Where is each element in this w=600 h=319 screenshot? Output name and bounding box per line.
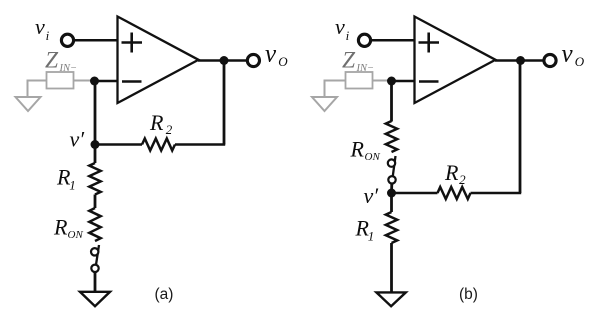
svg-text:2: 2	[459, 172, 466, 187]
node v' (a)	[91, 140, 100, 149]
wire output node down to R2 (a)	[223, 61, 226, 145]
switch blade (b)	[393, 156, 396, 176]
terminal vo (a)	[247, 54, 259, 66]
svg-text:v′: v′	[364, 183, 380, 208]
svg-text:R: R	[350, 137, 365, 162]
svg-text:IN−: IN−	[59, 63, 78, 74]
wire gray Zin left segment (b)	[325, 81, 346, 98]
gray ground (a)	[16, 97, 41, 111]
svg-text:R: R	[444, 160, 459, 185]
op-amp U1 (a)	[118, 17, 199, 104]
svg-text:v: v	[35, 14, 45, 39]
svg-text:Z: Z	[342, 47, 356, 73]
svg-text:v′: v′	[70, 126, 86, 151]
svg-text:ON: ON	[68, 229, 84, 241]
wire gray Zin to inverting node (b)	[373, 80, 391, 82]
svg-text:v: v	[335, 14, 345, 39]
wire R2 to output branch (b)	[471, 192, 522, 195]
wire inverting input (b)	[392, 80, 416, 83]
svg-text:v: v	[265, 41, 277, 68]
wire gray Zin left segment (a)	[28, 81, 47, 98]
terminal vo (b)	[544, 54, 556, 66]
svg-text:Z: Z	[45, 47, 59, 73]
svg-text:O: O	[278, 54, 288, 69]
resistor R1 (b)	[386, 212, 397, 243]
wire op-amp output to terminal (b)	[495, 59, 545, 62]
wire vi terminal to op-amp noninverting input (a)	[73, 39, 118, 42]
node at output (a)	[220, 56, 229, 65]
wire switch to ground (a)	[94, 272, 97, 292]
wire R1 to ground (b)	[390, 243, 393, 292]
svg-text:1: 1	[368, 228, 375, 243]
minus sign op-amp (a)	[122, 80, 142, 83]
svg-text:2: 2	[166, 122, 173, 137]
svg-text:ON: ON	[365, 151, 381, 163]
svg-text:(a): (a)	[155, 286, 174, 303]
node at inverting input (b)	[387, 77, 396, 86]
resistor RON (b)	[386, 121, 397, 152]
node v' (b)	[387, 189, 396, 198]
switch contact bottom (b)	[388, 176, 395, 183]
plus sign op-amp (b)	[419, 33, 440, 53]
wire R2 to output branch (a)	[175, 143, 225, 146]
resistor RON (a)	[89, 208, 100, 241]
wire output node down to R2 (b)	[519, 61, 522, 194]
svg-text:IN−: IN−	[356, 63, 375, 74]
wire v' down to R1 (b)	[390, 193, 393, 212]
resistor R2 (b)	[438, 187, 471, 199]
svg-text:i: i	[346, 28, 350, 43]
node at inverting input (a)	[90, 77, 99, 86]
svg-text:O: O	[575, 54, 585, 69]
wire inverting node down to v' (a)	[94, 81, 97, 145]
terminal vi (a)	[61, 34, 73, 46]
wire v' to R2 (a)	[95, 143, 142, 146]
resistor R2 (a)	[142, 139, 175, 151]
resistor R1 (a)	[89, 163, 100, 195]
impedance box ZIN- (a)	[47, 72, 74, 89]
svg-text:R: R	[149, 110, 164, 135]
wire gray Zin to inverting node (a)	[74, 80, 94, 82]
minus sign op-amp (b)	[419, 80, 439, 83]
svg-text:R: R	[53, 214, 68, 239]
wire op-amp output to terminal (a)	[198, 59, 248, 62]
ground (b)	[376, 292, 405, 306]
wire v' to R2 (b)	[392, 192, 438, 195]
switch contact top (b)	[388, 159, 395, 166]
svg-text:i: i	[46, 28, 50, 43]
wire inverting node down to RON (b)	[390, 81, 393, 122]
svg-text:v: v	[562, 41, 574, 68]
wire v' down to R1 (a)	[94, 145, 97, 164]
switch contact top (a)	[91, 248, 98, 255]
svg-text:(b): (b)	[459, 286, 478, 303]
terminal vi (b)	[358, 34, 370, 46]
gray ground (b)	[312, 97, 337, 111]
switch contact bottom (a)	[91, 265, 98, 272]
wire R1 to RON (a)	[94, 195, 97, 209]
wire inverting input (a)	[95, 80, 118, 83]
ground (a)	[80, 292, 110, 306]
switch blade (a)	[96, 245, 99, 265]
wire switch to v' (b)	[390, 184, 393, 194]
wire vi terminal to op-amp noninverting input (b)	[370, 39, 415, 42]
node at output (b)	[516, 56, 525, 65]
op-amp U1 (b)	[415, 17, 496, 104]
plus sign op-amp (a)	[122, 33, 143, 53]
svg-text:1: 1	[69, 177, 76, 192]
impedance box ZIN- (b)	[346, 72, 373, 89]
